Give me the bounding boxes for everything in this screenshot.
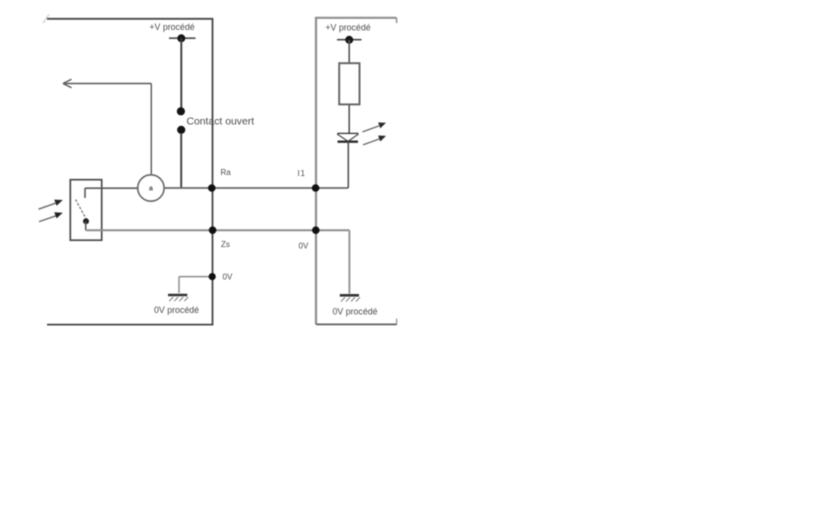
wire from contact down to output node [180, 133, 182, 188]
node 0V (sensor) [209, 273, 216, 280]
wire stub down to left ground [178, 277, 180, 293]
svg-text:I1: I1 [298, 169, 306, 178]
ammeter A1 circle [138, 175, 164, 201]
node: supply dot (right) [345, 36, 353, 44]
node: supply dot (left) [177, 34, 185, 42]
node I1 (input terminal) [312, 184, 320, 192]
svg-text:0V: 0V [223, 272, 233, 281]
switch S1 enclosure [70, 180, 101, 241]
switch top contact stub [84, 188, 86, 198]
wire: card 0V to ground [348, 230, 350, 293]
node Ra (sensor output terminal) [208, 184, 216, 192]
supply bar terminal (left) [169, 37, 196, 39]
node Zs (sensor 0V terminal) [209, 226, 217, 234]
switch bottom contact dot [83, 218, 89, 224]
svg-text:0V procédé: 0V procédé [154, 305, 199, 315]
svg-text:Zs: Zs [221, 240, 230, 249]
wire: output row (meter to LED column) [164, 187, 348, 189]
cut mark top-left of sensor box [43, 15, 49, 24]
svg-text:+V procédé: +V procédé [325, 23, 370, 33]
switch bottom stub [85, 222, 87, 230]
node 0V (card 0V terminal) [312, 226, 320, 234]
LED D1 [337, 134, 358, 142]
contact upper terminal dot [177, 107, 185, 115]
supply bar terminal (right) [337, 39, 362, 41]
ground (left, 0V procédé) [168, 295, 188, 301]
svg-text:0V: 0V [299, 242, 309, 251]
wire: sensor 0V stub to ground [179, 276, 213, 278]
wire supply to resistor [348, 40, 350, 63]
svg-text:Contact ouvert: Contact ouvert [187, 117, 255, 128]
svg-text:a: a [149, 186, 153, 193]
resistor R1 [339, 63, 359, 104]
wire resistor to LED [348, 104, 350, 133]
arrow to process (output), pointing left [63, 79, 151, 175]
contact lower terminal dot [177, 126, 185, 134]
wire: 0V row [86, 229, 350, 231]
switch top contact wire [85, 187, 138, 189]
switch blade (open) [76, 200, 87, 220]
wire LED to output row [347, 142, 349, 188]
svg-text:Ra: Ra [221, 168, 232, 177]
svg-text:+V procédé: +V procédé [149, 22, 194, 32]
right box (input card enclosure, open on right) [316, 18, 397, 325]
ground (right, 0V procédé) [340, 295, 360, 301]
photo arrows into switch [39, 200, 63, 222]
LED emission arrows [363, 122, 387, 144]
left box (sensor enclosure, open on left) [47, 19, 213, 325]
svg-text:0V procédé: 0V procédé [333, 307, 378, 317]
wire from +V down to contact [180, 38, 182, 108]
